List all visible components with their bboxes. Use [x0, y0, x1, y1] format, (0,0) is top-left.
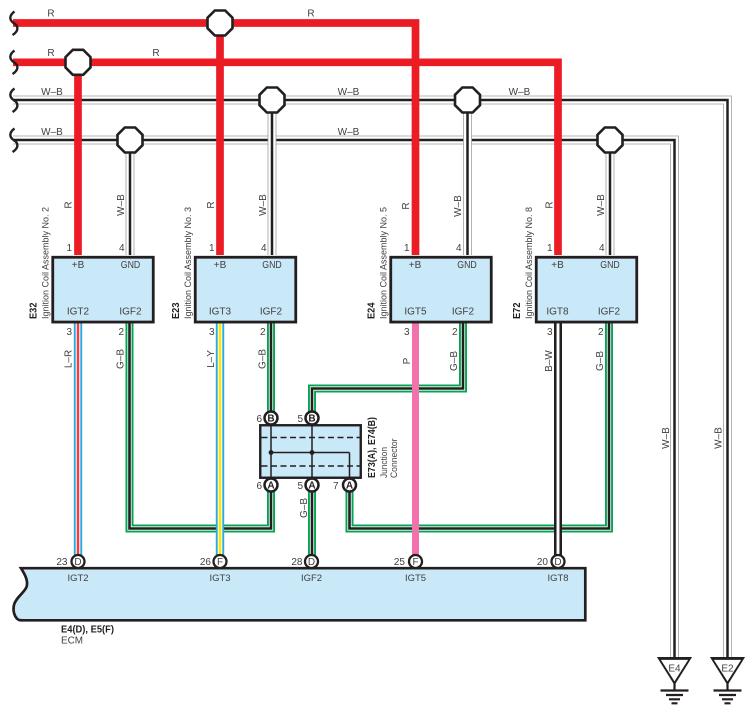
svg-text:28: 28 — [291, 557, 303, 568]
svg-text:IGT5: IGT5 — [405, 573, 426, 584]
svg-text:23: 23 — [56, 557, 68, 568]
svg-text:Connector: Connector — [389, 439, 400, 479]
svg-text:GND: GND — [262, 260, 282, 271]
svg-text:IGF2: IGF2 — [260, 307, 283, 318]
svg-text:20: 20 — [537, 557, 549, 568]
svg-text:D: D — [74, 557, 81, 568]
junction internal bus line to A7 — [349, 453, 351, 479]
svg-text:E73(A), E74(B): E73(A), E74(B) — [367, 417, 378, 478]
ECM pin 25 F — [409, 555, 422, 568]
svg-text:R: R — [401, 202, 412, 209]
wire G-B from E32 IGF2 to junction A6 — [130, 322, 272, 529]
wire W-B main 2 (to ground E4) — [13, 140, 675, 657]
svg-text:A: A — [308, 481, 315, 492]
svg-text:E4: E4 — [668, 664, 681, 675]
svg-text:R: R — [206, 201, 217, 208]
junction pin numbers — [256, 414, 339, 492]
svg-text:ECM: ECM — [61, 636, 83, 647]
svg-text:IGT5: IGT5 — [404, 307, 427, 318]
svg-text:IGT8: IGT8 — [547, 573, 568, 584]
svg-text:A: A — [346, 481, 353, 492]
svg-text:B: B — [267, 414, 274, 425]
svg-text:G–B: G–B — [258, 349, 269, 369]
wire break symbol on W-B main 2 — [10, 129, 17, 153]
svg-text:W–B: W–B — [338, 87, 360, 98]
wire R main 1 (to E24 +B) — [13, 23, 416, 255]
wire R main 2 (to E72 +B) — [13, 62, 558, 255]
svg-text:5: 5 — [297, 481, 303, 492]
svg-text:R: R — [47, 9, 54, 20]
svg-text:26: 26 — [200, 557, 212, 568]
svg-text:W–B: W–B — [453, 195, 464, 217]
svg-text:G–B: G–B — [449, 351, 460, 371]
svg-text:R: R — [544, 201, 555, 208]
svg-text:R: R — [152, 48, 159, 59]
wire W-B main 1 (to ground E2) — [13, 100, 728, 657]
svg-text:4: 4 — [261, 243, 267, 254]
ignition coil assembly No.5 E24 box — [391, 257, 492, 322]
ignition coil assembly No.3 E23 box — [195, 257, 296, 322]
svg-text:2: 2 — [598, 327, 604, 338]
svg-text:P: P — [402, 357, 413, 364]
junction pin B5 — [306, 412, 319, 425]
svg-text:D: D — [308, 557, 315, 568]
svg-text:Ignition Coil Assembly No. 3: Ignition Coil Assembly No. 3 — [183, 207, 194, 319]
E72 pin numbers — [547, 243, 605, 338]
svg-text:IGF2: IGF2 — [452, 307, 475, 318]
svg-text:7: 7 — [333, 481, 339, 492]
svg-text:Ignition Coil Assembly No. 2: Ignition Coil Assembly No. 2 — [41, 207, 52, 319]
junction internal tie line — [271, 452, 350, 454]
ECM box — [14, 568, 586, 620]
svg-text:1: 1 — [209, 243, 215, 254]
svg-text:B: B — [308, 414, 315, 425]
wire W-B drop to E72 GND — [606, 140, 615, 255]
svg-text:W–B: W–B — [596, 194, 607, 216]
wire break symbol on R main 1 — [10, 12, 17, 36]
splice octagon on R main 1 — [208, 11, 233, 36]
junction node dot at 6 — [269, 450, 274, 455]
svg-text:3: 3 — [547, 327, 553, 338]
svg-text:E4(D), E5(F): E4(D), E5(F) — [61, 625, 114, 636]
svg-text:W–B: W–B — [258, 194, 269, 216]
svg-text:1: 1 — [66, 243, 72, 254]
splice octagon on W-B main 1 at E23 GND — [260, 88, 285, 113]
svg-text:W–B: W–B — [338, 127, 360, 138]
ECM pin 20 D — [552, 555, 565, 568]
ground E2 — [710, 657, 745, 703]
splice octagon on R main 2 — [66, 50, 91, 75]
svg-text:L–R: L–R — [64, 350, 75, 368]
svg-text:E24: E24 — [367, 302, 378, 319]
svg-text:3: 3 — [209, 327, 215, 338]
wire L-R from E32 IGT2 to ECM IGT2 — [74, 322, 82, 556]
ECM pin names — [67, 573, 568, 584]
svg-text:W–B: W–B — [714, 427, 725, 449]
svg-text:Ignition Coil Assembly No. 8: Ignition Coil Assembly No. 8 — [524, 207, 535, 319]
svg-text:IGF2: IGF2 — [301, 573, 322, 584]
svg-text:W–B: W–B — [509, 87, 531, 98]
wire P from E24 IGT5 to ECM IGT5 — [412, 322, 419, 556]
wire R drop to E32 +B — [74, 62, 82, 255]
svg-text:W–B: W–B — [661, 427, 672, 449]
wire W-B drop to E24 GND — [463, 100, 472, 255]
svg-text:IGF2: IGF2 — [598, 307, 621, 318]
junction internal dashed line lower — [262, 465, 360, 467]
wire W-B drop to E32 GND — [126, 140, 135, 255]
svg-text:4: 4 — [456, 243, 462, 254]
svg-text:2: 2 — [260, 327, 266, 338]
svg-text:4: 4 — [119, 243, 125, 254]
wire G-B from E24 IGF2 to junction B5 — [312, 322, 463, 413]
svg-text:Ignition Coil Assembly No. 5: Ignition Coil Assembly No. 5 — [379, 207, 390, 319]
E24 pin numbers — [404, 243, 462, 338]
wire G-B from E23 IGF2 to junction B6 — [267, 322, 275, 413]
svg-text:E72: E72 — [512, 302, 523, 319]
ECM pin 26 F — [214, 555, 227, 568]
wire W-B drop to E23 GND — [268, 100, 277, 255]
ECM pin 23 D — [72, 555, 85, 568]
junction internal dashed line upper — [262, 437, 360, 439]
splice octagon on W-B main 1 at E24 GND — [455, 88, 480, 113]
svg-text:5: 5 — [297, 414, 303, 425]
ECM pin 28 D — [305, 555, 318, 568]
svg-text:6: 6 — [256, 414, 262, 425]
svg-text:2: 2 — [452, 327, 458, 338]
wire B-W from E72 IGT8 to ECM IGT8 — [554, 322, 562, 556]
svg-text:+B: +B — [214, 260, 227, 271]
svg-text:4: 4 — [599, 243, 605, 254]
splice octagon on W-B main 2 at E32 GND — [118, 128, 143, 153]
svg-text:R: R — [307, 9, 314, 20]
svg-text:R: R — [64, 201, 75, 208]
svg-text:W–B: W–B — [116, 194, 127, 216]
svg-text:F: F — [217, 557, 223, 568]
svg-text:B–W: B–W — [544, 350, 555, 372]
wire break symbol on W-B main 1 — [10, 89, 17, 113]
svg-text:D: D — [554, 557, 561, 568]
svg-text:GND: GND — [121, 260, 141, 271]
junction pin B6 — [265, 412, 278, 425]
svg-text:+B: +B — [551, 260, 564, 271]
svg-text:G–B: G–B — [116, 349, 127, 369]
svg-text:E23: E23 — [171, 302, 182, 319]
wire L-Y from E23 IGT3 to ECM IGT3 — [216, 322, 224, 556]
svg-text:W–B: W–B — [41, 127, 63, 138]
svg-text:G–B: G–B — [595, 351, 606, 371]
svg-text:E2: E2 — [721, 664, 734, 675]
svg-text:1: 1 — [547, 243, 553, 254]
svg-text:W–B: W–B — [41, 87, 63, 98]
svg-text:IGT3: IGT3 — [209, 573, 230, 584]
svg-text:IGT3: IGT3 — [209, 307, 232, 318]
svg-text:2: 2 — [118, 327, 124, 338]
junction connector E73/E74 box — [260, 425, 361, 478]
junction pin A6 — [265, 479, 278, 492]
wire break symbol on R main 2 — [10, 51, 17, 75]
svg-text:G–B: G–B — [299, 498, 310, 518]
ignition coil assembly No.2 E32 box — [53, 257, 154, 322]
junction internal bus line B5-A5 — [311, 426, 313, 478]
E23 pin numbers — [209, 243, 267, 338]
splice octagon on W-B main 2 at E72 GND — [598, 128, 623, 153]
junction pin A7 — [343, 479, 356, 492]
svg-text:IGT8: IGT8 — [546, 307, 569, 318]
junction internal bus line B6-A6 — [270, 426, 272, 478]
ECM pin numbers — [56, 557, 548, 568]
svg-text:IGT2: IGT2 — [67, 307, 90, 318]
svg-text:3: 3 — [66, 327, 72, 338]
svg-text:GND: GND — [457, 260, 477, 271]
junction node dot at 5 — [310, 450, 315, 455]
svg-text:+B: +B — [72, 260, 85, 271]
svg-text:+B: +B — [409, 260, 422, 271]
wire G-B from E72 IGF2 to junction A7 — [350, 322, 610, 529]
svg-text:A: A — [267, 481, 274, 492]
svg-text:IGF2: IGF2 — [119, 307, 142, 318]
svg-text:L–Y: L–Y — [206, 350, 217, 368]
svg-text:GND: GND — [600, 260, 620, 271]
svg-text:6: 6 — [256, 481, 262, 492]
svg-text:E32: E32 — [29, 302, 40, 319]
svg-text:IGT2: IGT2 — [67, 573, 88, 584]
svg-text:F: F — [412, 557, 418, 568]
svg-text:R: R — [47, 48, 54, 59]
ignition coil assembly No.8 E72 box — [536, 257, 637, 322]
ground E4 — [657, 657, 692, 703]
E32 pin numbers — [66, 243, 125, 338]
wire R drop to E23 +B — [216, 23, 224, 255]
svg-text:25: 25 — [394, 557, 406, 568]
svg-text:1: 1 — [404, 243, 410, 254]
junction pin A5 — [306, 479, 319, 492]
svg-text:3: 3 — [404, 327, 410, 338]
wire G-B from junction A5 to ECM IGF2 — [308, 490, 316, 556]
